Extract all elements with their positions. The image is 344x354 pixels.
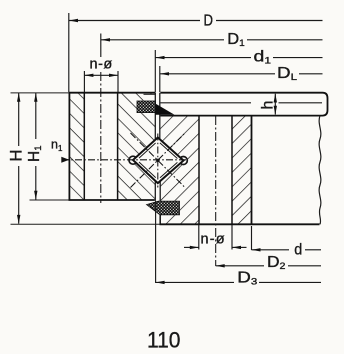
svg-text:h: h <box>260 101 277 110</box>
svg-text:D: D <box>204 13 214 30</box>
svg-text:n-ø: n-ø <box>201 232 226 248</box>
svg-text:n-ø: n-ø <box>90 57 113 73</box>
svg-text:110: 110 <box>147 328 181 353</box>
svg-text:H: H <box>7 150 25 162</box>
svg-text:d: d <box>294 242 302 259</box>
